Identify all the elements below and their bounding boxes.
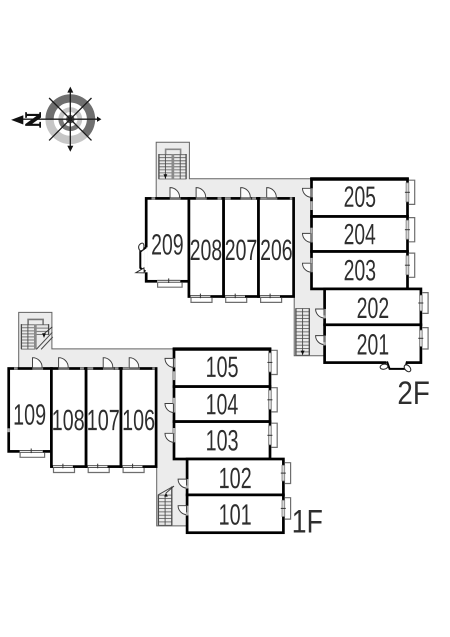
door arc room 107 [103, 358, 113, 368]
window room 109 (south) [20, 450, 43, 453]
window room 103 (east) [269, 426, 272, 445]
entrance door room 201 [386, 361, 406, 365]
door arc room 206 [267, 188, 277, 198]
north outer wall above room 105 [173, 347, 272, 350]
window room 205 (east) [406, 183, 409, 202]
building 2F [136, 142, 428, 373]
room 208 [189, 198, 224, 296]
west wall windows rooms 105-101 [173, 371, 175, 380]
door arc room 103 [165, 433, 173, 442]
stairs (1F mid stairwell) [158, 486, 174, 525]
room 103 [174, 422, 270, 459]
window room 106 (south) [123, 465, 143, 468]
room 102 [187, 459, 283, 495]
door opening room 107 [103, 367, 114, 370]
door arc room 104 [165, 404, 173, 413]
door opening room 105 [173, 358, 176, 367]
room label 204 [345, 224, 376, 245]
room label 106 [124, 410, 155, 431]
door arc room 205 [302, 188, 310, 197]
room label 203 [345, 260, 376, 281]
door arc room 108 [59, 358, 69, 368]
door opening room 208 [196, 197, 207, 200]
window room 209 (south) [157, 280, 180, 283]
room label 209 [152, 234, 183, 255]
window room 107 (south) [88, 465, 108, 468]
room label 202 [358, 298, 389, 319]
room label 103 [207, 430, 238, 451]
window room 201 (east) [420, 330, 423, 346]
stairs (2F north-west stairwell) [159, 149, 187, 179]
room label 104 [207, 394, 238, 415]
room 101 [187, 495, 283, 533]
room label 105 [207, 356, 238, 377]
window room 208 (south) [191, 295, 211, 298]
window room 206 (south) [260, 295, 280, 298]
room 203 [312, 252, 408, 289]
window room 204 (east) [406, 220, 409, 239]
room 207 [224, 198, 259, 296]
room 209 [146, 198, 189, 281]
door arc room 208 [196, 188, 206, 198]
corridor and stair hall (gray) [156, 142, 324, 355]
stairs (2F mid stairwell) [295, 309, 309, 356]
door arc room 105 [165, 358, 173, 367]
door opening room 204 [310, 233, 313, 242]
room label 101 [220, 504, 251, 525]
svg-text:2F: 2F [397, 375, 429, 411]
door opening room 108 [58, 367, 69, 370]
room label 102 [220, 468, 251, 489]
room label 109 [15, 404, 46, 425]
room 205 [312, 179, 408, 217]
stairs (1F north-west stairwell) [21, 319, 53, 349]
room 109 [9, 369, 52, 452]
compass rose [11, 87, 101, 152]
window room 102 (east) [282, 465, 285, 481]
door arc room 109 [33, 358, 43, 368]
window room 105 (east) [269, 353, 272, 372]
room 107 [86, 369, 121, 467]
window room 108 (south) [53, 465, 73, 468]
door arc room 106 [129, 358, 139, 368]
window room 101 (east) [282, 500, 285, 516]
room 106 [121, 369, 156, 467]
room label 107 [88, 410, 119, 431]
room label 206 [261, 240, 292, 261]
room 204 [312, 217, 408, 252]
entrance door room 209 [145, 247, 148, 272]
room label 108 [53, 410, 84, 431]
door opening room 106 [129, 367, 140, 370]
room 201 [325, 325, 421, 363]
door opening room 203 [310, 263, 313, 272]
north outer wall above room 205 [310, 177, 409, 180]
north wall windows rooms 209-206 [152, 197, 156, 199]
door opening room 103 [173, 433, 176, 442]
room label 207 [226, 240, 257, 261]
corridor and stair hall (gray) [19, 312, 187, 526]
window room 202 (east) [420, 295, 423, 311]
north arrow N [11, 115, 23, 124]
door opening room 209 [170, 197, 181, 200]
door opening room 102 [186, 479, 189, 488]
building 1F [8, 312, 291, 532]
room 105 [174, 349, 270, 387]
west wall window room 109 [8, 428, 10, 432]
door opening room 201 [323, 336, 326, 345]
window room 104 (east) [269, 390, 272, 409]
door opening room 101 [186, 506, 189, 515]
room 104 [174, 387, 270, 422]
door arc room 101 [178, 506, 186, 515]
room label 205 [345, 186, 376, 207]
door opening room 104 [173, 404, 176, 413]
door arc room 201 [316, 336, 324, 345]
svg-text:1F: 1F [292, 504, 323, 540]
window room 203 (east) [406, 256, 409, 275]
door arc room 207 [241, 188, 251, 198]
room 202 [325, 289, 421, 325]
window room 207 (south) [225, 295, 245, 298]
door opening room 202 [323, 309, 326, 318]
north wall windows rooms 109-106 [14, 367, 18, 369]
door opening room 207 [241, 197, 252, 200]
room label 201 [358, 334, 389, 355]
door arc room 203 [302, 263, 310, 272]
room 206 [259, 198, 294, 296]
room label 208 [191, 240, 222, 261]
door opening room 205 [310, 188, 313, 197]
door arc room 209 [170, 188, 180, 198]
door arc room 202 [316, 309, 324, 318]
door opening room 109 [32, 367, 43, 370]
door arc room 102 [178, 479, 186, 488]
west wall windows rooms 205-201 [310, 201, 312, 210]
door arc room 204 [302, 233, 310, 242]
room 108 [51, 369, 86, 467]
door opening room 206 [267, 197, 278, 200]
